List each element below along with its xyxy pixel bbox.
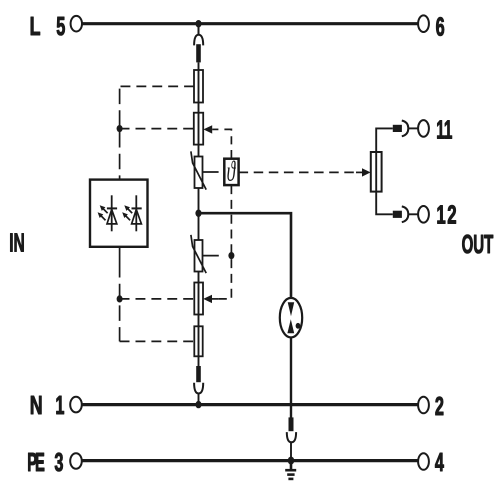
dashed left rail lower <box>119 247 121 342</box>
junction on sensor rail <box>228 252 234 259</box>
wire from L junction down <box>198 24 200 36</box>
plug socket arc 12 <box>402 206 409 222</box>
wire remote fuse to contact 12 <box>376 192 393 215</box>
svg-text:1: 1 <box>55 391 64 420</box>
plug pin 12 <box>393 211 402 218</box>
terminal circle 12 <box>418 206 429 223</box>
svg-text:3: 3 <box>54 448 63 477</box>
svg-text:6: 6 <box>436 13 445 42</box>
svg-text:11: 11 <box>436 117 452 145</box>
dashed wire thermal sensor to remote fuse <box>239 171 356 173</box>
svg-text:N: N <box>30 391 43 420</box>
fuse F1 <box>194 70 203 103</box>
dashed wire disconnector arrow to thermal sensor <box>224 129 231 158</box>
svg-text:IN: IN <box>9 230 25 258</box>
varistor RV1 <box>191 151 206 189</box>
disconnect contact arc bottom <box>194 383 203 394</box>
arrow into disconnector 2 <box>203 295 218 303</box>
terminal circle 6 <box>418 15 429 32</box>
svg-text:ϑ: ϑ <box>227 157 237 188</box>
dashed wire thermal sensor down to disconnector 2 arrow <box>218 185 231 299</box>
svg-text:PE: PE <box>27 449 45 477</box>
wire remote fuse to contact 11 <box>376 128 393 152</box>
wire junction to spark gap branch <box>199 213 292 298</box>
disconnect contact arc top <box>194 35 203 46</box>
junction on left rail upper <box>117 125 123 132</box>
wire arc to PE bus <box>290 442 292 461</box>
disconnect pin bottom <box>196 366 201 382</box>
terminal circle 3 <box>70 453 82 469</box>
terminal circle 5 <box>71 16 82 32</box>
junction on PE bus <box>288 457 295 465</box>
arrow into remote fuse <box>356 168 371 176</box>
thermal disconnector contact 2 <box>194 283 203 315</box>
junction on L bus <box>195 20 201 27</box>
wire spark gap to N crossing <box>290 338 292 418</box>
terminal circle 2 <box>418 397 429 414</box>
terminal circle 4 <box>418 453 429 470</box>
disconnect pin top <box>196 44 201 62</box>
junction on N bus <box>195 401 201 408</box>
disconnect pin spark gap <box>289 417 294 431</box>
wire socket to terminal 11 <box>408 127 418 129</box>
dashed wire left rail to disconnector 2 <box>120 298 195 300</box>
wire arc to N bus <box>198 393 200 405</box>
svg-text:5: 5 <box>56 12 65 41</box>
thermal disconnector contact <box>194 113 203 145</box>
terminal circle 11 <box>418 120 429 137</box>
fuse F2 <box>194 326 202 356</box>
wire L bus <box>82 22 418 25</box>
svg-text:L: L <box>30 12 41 41</box>
gas discharge tube / spark gap <box>280 298 302 338</box>
wire varistor RV2 to sense node <box>203 255 219 257</box>
dashed left rail upper <box>119 89 121 180</box>
indicator box <box>90 180 148 247</box>
LED D2 <box>122 195 142 231</box>
wire varistor RV1 to thermal sensor <box>203 171 219 173</box>
wire N bus <box>82 403 418 406</box>
ground <box>285 461 296 479</box>
dashed wire left rail to fuse F2 <box>120 340 195 342</box>
wire socket to terminal 12 <box>408 213 418 215</box>
fuse F3 remote signalling <box>371 152 382 192</box>
wire pin to fuse <box>198 63 200 157</box>
plug socket arc 11 <box>402 121 409 137</box>
wire varistor RV1 to junction <box>198 188 200 240</box>
thermal sensor box <box>224 159 238 185</box>
plug pin 11 <box>393 125 402 132</box>
LED D1 <box>98 195 118 231</box>
varistor RV2 <box>191 235 206 273</box>
wire varistor RV2 down <box>198 272 200 367</box>
svg-text:4: 4 <box>435 448 444 477</box>
dashed wire fuse F1 to left rail <box>120 85 194 87</box>
disconnect contact arc spark gap <box>287 432 296 442</box>
wire PE bus <box>82 459 418 462</box>
svg-text:OUT: OUT <box>462 231 494 259</box>
junction center node <box>195 210 201 217</box>
terminal circle 1 <box>70 397 82 413</box>
dashed wire left rail to disconnector <box>120 128 194 130</box>
arrow into disconnector <box>203 125 218 133</box>
svg-text:2: 2 <box>435 393 444 422</box>
junction on left rail lower <box>117 295 123 302</box>
svg-text:12: 12 <box>436 200 458 230</box>
